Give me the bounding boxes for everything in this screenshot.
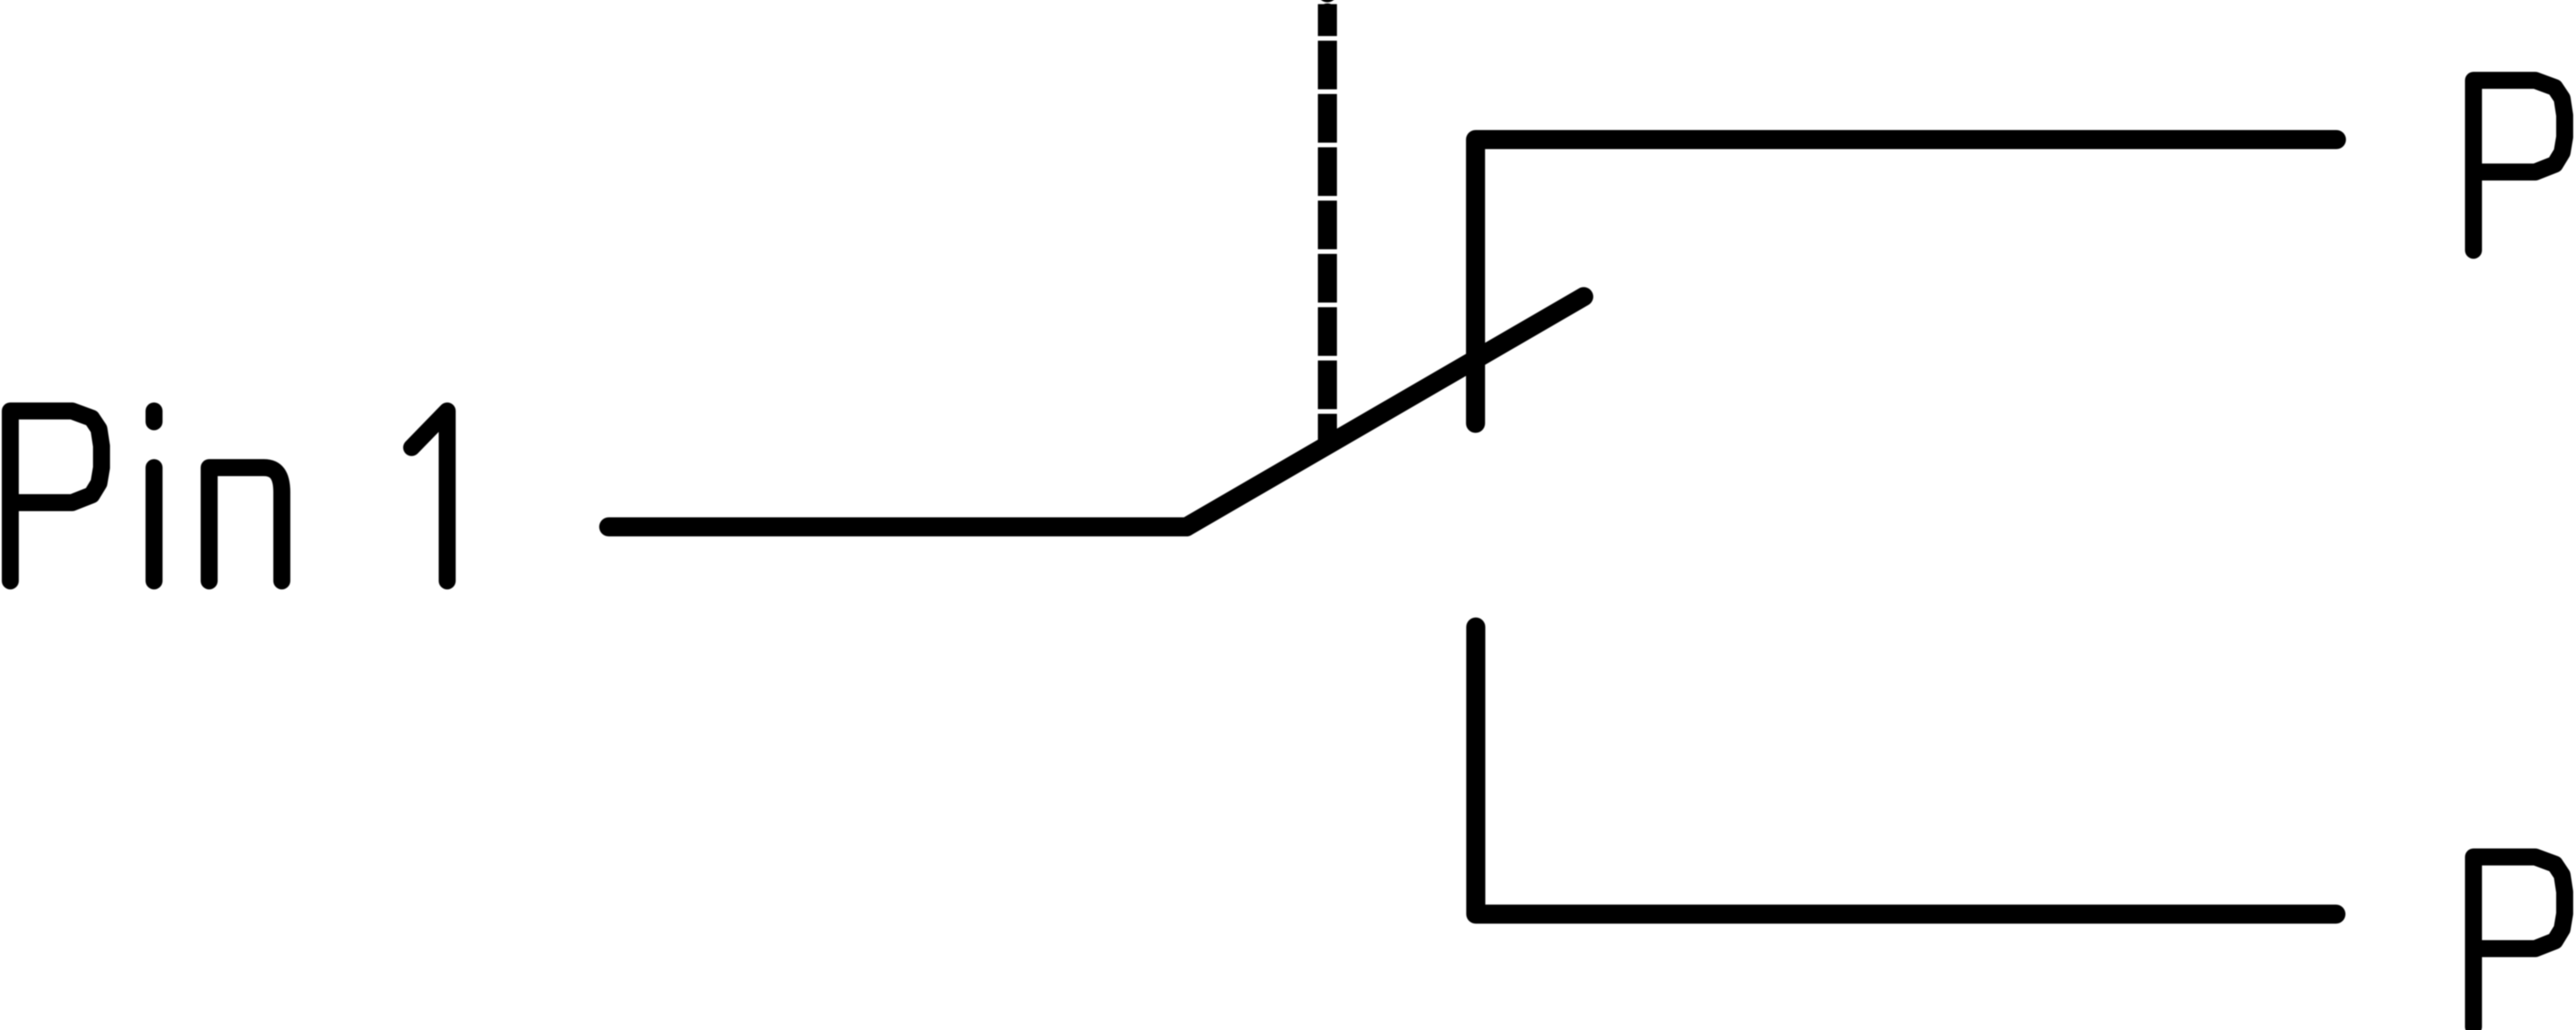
pin label "Pin 1" bbox=[10, 411, 447, 581]
actuator dashed line first dash round top bbox=[1318, 13, 1337, 22]
actuator dashed line bbox=[1318, 4, 1337, 446]
pin label "Pin 4" bbox=[2473, 857, 2576, 1027]
wire Pin 4 (lower throw) bbox=[1476, 627, 2336, 915]
wire Pin 2 (upper throw) bbox=[1476, 140, 2336, 423]
pin label "Pin 2" bbox=[2473, 80, 2576, 250]
switch lever (pole to throw B) bbox=[1187, 297, 1584, 527]
wire Pin 1 (pole wire) bbox=[609, 518, 1187, 537]
